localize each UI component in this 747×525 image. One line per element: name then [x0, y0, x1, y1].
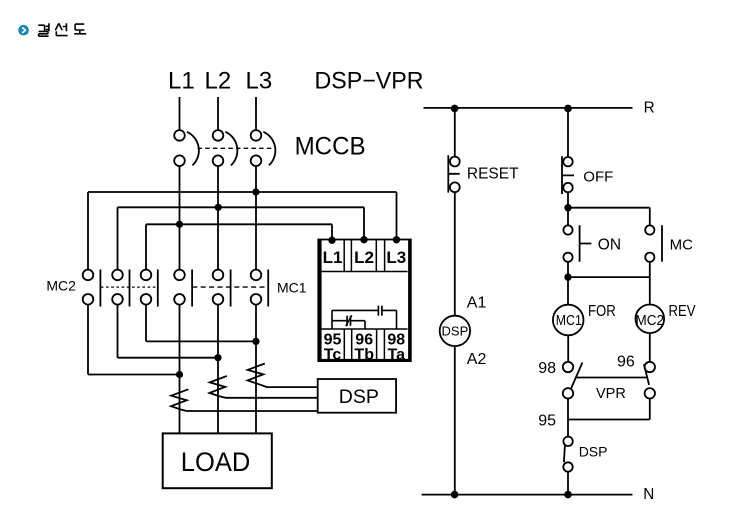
wire MC2 pole3 to L3 column	[146, 304, 256, 341]
pushbutton ON	[563, 208, 591, 262]
relay terminal L2	[360, 236, 367, 243]
svg-text:L3: L3	[386, 248, 406, 267]
wire ON bottom join	[568, 262, 650, 305]
node R left branch	[451, 105, 459, 113]
node split ON/MC	[564, 204, 571, 211]
rail R	[424, 107, 633, 109]
rail N	[422, 494, 633, 496]
svg-text:MC2: MC2	[636, 312, 665, 329]
contactor MC2 pole 2	[112, 270, 129, 307]
relay terminal L3	[393, 236, 400, 243]
title text 결선도 (drawn strokes)	[38, 23, 86, 36]
svg-text:L2: L2	[205, 68, 232, 95]
wire MC1 coil to VPR	[567, 335, 569, 362]
wire phase L3 vertical	[255, 166, 257, 270]
svg-text:LOAD: LOAD	[181, 447, 251, 477]
svg-text:ON: ON	[598, 236, 621, 253]
wire ring 3 (L1 to MC2 pole3 and relay L1)	[146, 224, 332, 269]
wire MC1 pole3 down to LOAD	[255, 304, 257, 433]
node R mid branch	[564, 105, 572, 113]
svg-text:Ta: Ta	[388, 346, 406, 363]
node wire2/L2	[215, 204, 222, 211]
node N left	[451, 491, 459, 499]
svg-text:R: R	[644, 99, 655, 116]
wire RESET to DSP coil	[454, 192, 456, 316]
pushbutton OFF	[562, 156, 574, 194]
wire mid branch top	[567, 108, 569, 157]
wire DSP contact to N	[567, 472, 569, 495]
wire L2 lead	[217, 97, 219, 130]
MCCB pole 2	[213, 130, 224, 141]
wire left branch top	[454, 108, 456, 156]
title bullet icon	[18, 25, 29, 36]
relay internal NO contact 95-98	[332, 310, 397, 329]
svg-text:MCCB: MCCB	[295, 133, 366, 161]
svg-text:DSP: DSP	[442, 323, 469, 338]
svg-text:98: 98	[538, 360, 556, 377]
node crossover L1	[176, 371, 183, 378]
svg-text:A1: A1	[467, 295, 487, 312]
svg-text:MC1: MC1	[277, 279, 307, 295]
wire to MC1 coil	[567, 277, 569, 305]
wire L1 lead	[179, 97, 181, 130]
svg-text:L2: L2	[354, 248, 374, 267]
pushbutton RESET	[448, 155, 459, 192]
MC2 linkage dashed	[101, 286, 158, 288]
wire MC2 pole1 to L1 column	[88, 304, 180, 374]
relay DSP-VPR box	[318, 240, 411, 362]
wire MC2 coil to VPR	[649, 333, 651, 362]
MCCB pole 3	[251, 130, 262, 141]
node wire3/L1	[176, 221, 183, 228]
svg-text:FOR: FOR	[588, 303, 616, 320]
svg-text:L1: L1	[323, 248, 343, 267]
LOAD box	[163, 433, 272, 488]
contactor MC1 pole 2	[213, 270, 231, 307]
wire DSP coil to N	[454, 346, 456, 495]
svg-text:96: 96	[617, 353, 635, 370]
wire MC2 pole2 to L2 column	[118, 304, 219, 357]
heater element phase2	[210, 376, 318, 398]
wire ring 1 (L3 to MC2 pole1 and relay L3)	[88, 192, 397, 270]
svg-text:MC1: MC1	[556, 313, 582, 329]
node wire1/L3	[252, 188, 259, 195]
svg-text:95: 95	[538, 413, 556, 430]
coil MC1	[553, 305, 584, 336]
wire split horizontal	[568, 207, 650, 209]
svg-text:VPR: VPR	[596, 386, 626, 402]
svg-text:DSP: DSP	[579, 444, 608, 460]
svg-text:A2: A2	[467, 351, 487, 368]
svg-text:MC: MC	[670, 236, 693, 253]
wire L3 lead	[255, 97, 257, 130]
node join	[564, 273, 571, 280]
node crossover L3	[252, 338, 259, 345]
wire ring 2 (L2 to MC2 pole2 and relay L2)	[118, 207, 365, 269]
node crossover L2	[214, 354, 221, 361]
svg-text:DSP−VPR: DSP−VPR	[315, 68, 424, 95]
MCCB pole 1	[174, 130, 185, 141]
svg-text:N: N	[643, 486, 654, 503]
node N mid	[564, 491, 572, 499]
svg-text:L1: L1	[168, 68, 195, 95]
svg-text:Tc: Tc	[324, 346, 342, 363]
contactor MC1 pole 3	[251, 270, 269, 307]
heater element phase3	[248, 364, 318, 388]
wire MC1 pole2 down to LOAD	[217, 304, 219, 433]
relay terminal L1	[328, 237, 335, 244]
contact DSP	[563, 420, 573, 472]
wire OFF to split	[567, 192, 569, 207]
MC1 linkage dashed	[192, 286, 268, 288]
svg-text:L3: L3	[246, 68, 273, 95]
wire phase L1 vertical	[179, 166, 181, 270]
VPR changeover contact	[563, 362, 655, 399]
svg-text:MC2: MC2	[46, 277, 76, 293]
coil MC2	[636, 305, 665, 334]
svg-text:DSP: DSP	[339, 386, 379, 408]
wire MC1 pole1 down to LOAD	[179, 304, 181, 433]
wire VPR bottoms join	[568, 399, 650, 420]
svg-text:Tb: Tb	[354, 346, 374, 363]
svg-text:REV: REV	[669, 303, 697, 320]
contactor MC2 pole 1	[83, 270, 101, 307]
heater element phase1	[171, 389, 318, 411]
svg-text:RESET: RESET	[467, 166, 519, 183]
DSP box	[318, 379, 396, 413]
coil DSP	[440, 316, 470, 346]
MCCB linkage dashed	[198, 147, 275, 149]
relay internal NC contact 95-96	[332, 321, 365, 329]
contact MC	[645, 208, 662, 262]
svg-text:OFF: OFF	[583, 169, 613, 186]
wire phase L2 vertical	[217, 166, 219, 270]
contactor MC1 pole 1	[174, 270, 192, 307]
contactor MC2 pole 3	[141, 270, 158, 307]
